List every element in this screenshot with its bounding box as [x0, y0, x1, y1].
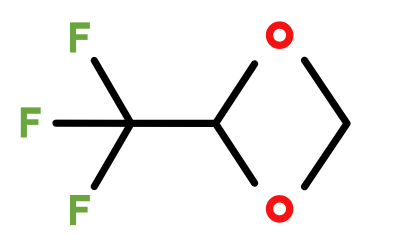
atom label F top — [70, 22, 90, 52]
bond O top-C3 and bond O bottom-C3 (right apex) — [305, 60, 348, 186]
bond C2-O top and bond C2-O bottom — [216, 64, 255, 183]
atom label F left — [21, 107, 41, 137]
atom label O top — [270, 25, 290, 45]
atom label F bottom — [70, 195, 90, 225]
atom label O bottom — [270, 199, 290, 219]
bond F left-C1-C2 horizontal — [56, 120, 216, 127]
bond C1-F top and bond C1-F bottom — [94, 61, 131, 187]
